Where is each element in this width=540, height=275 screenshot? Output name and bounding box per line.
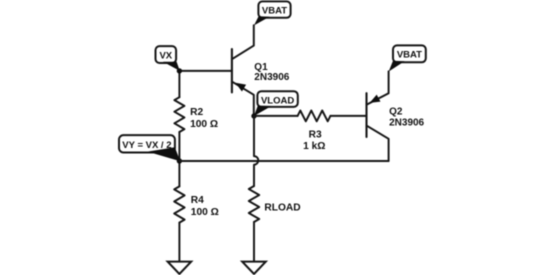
transistor Q2 collector lead (down to rail) — [367, 126, 389, 161]
wire: VLOAD node down, hop over rail, to RLOAD — [254, 116, 258, 186]
wire: VX node to Q1 base — [179, 70, 232, 72]
label R2 — [190, 107, 203, 118]
resistor R4 — [174, 186, 184, 222]
wire: RLOAD to ground — [253, 222, 255, 262]
ground (right) — [242, 262, 266, 274]
net label VY = VX / 2 — [119, 135, 180, 161]
label Q1 — [254, 62, 268, 73]
transistor Q1 base bar — [231, 49, 233, 92]
wire: R3 to Q2 base — [330, 115, 366, 117]
label RLOAD — [264, 202, 300, 213]
svg-text:R3: R3 — [309, 130, 322, 141]
label Q2 — [389, 107, 403, 118]
svg-text:Q1: Q1 — [254, 62, 268, 73]
svg-text:100 Ω: 100 Ω — [191, 207, 219, 218]
value 100 ohm (R4) — [191, 207, 219, 218]
svg-text:VBAT: VBAT — [262, 5, 287, 16]
net label VBAT (right) — [389, 45, 426, 71]
node VY (junction dot) — [177, 158, 182, 163]
net label VLOAD — [254, 91, 298, 116]
svg-text:VX: VX — [159, 50, 172, 61]
svg-text:VY = VX / 2: VY = VX / 2 — [122, 140, 171, 151]
value 2N3906 (Q2) — [389, 117, 424, 128]
transistor Q2 emitter arrow (PNP, points to base) — [370, 95, 381, 103]
svg-text:VLOAD: VLOAD — [261, 95, 294, 106]
label R4 — [191, 195, 204, 206]
svg-text:2N3906: 2N3906 — [254, 72, 289, 83]
resistor R2 — [174, 97, 184, 132]
ground (left) — [168, 262, 192, 274]
value 100 ohm (R2) — [190, 119, 218, 130]
svg-text:1 kΩ: 1 kΩ — [303, 141, 325, 152]
value 2N3906 (Q1) — [254, 72, 289, 83]
svg-text:100 Ω: 100 Ω — [190, 119, 218, 130]
svg-text:RLOAD: RLOAD — [264, 202, 300, 213]
svg-text:VBAT: VBAT — [397, 50, 422, 61]
svg-text:Q2: Q2 — [389, 107, 403, 118]
value 1 kohm (R3) — [303, 141, 325, 152]
wire: rail from VY node to Q2 collector — [179, 160, 388, 162]
transistor Q2 base bar — [365, 93, 367, 137]
net label VX — [156, 46, 180, 71]
wire: R2 to VY node to R4 — [178, 132, 180, 186]
node VLOAD (junction dot) — [251, 113, 256, 118]
wire: VX node down to R2 — [178, 71, 180, 97]
node VX (junction dot) — [177, 68, 182, 73]
svg-text:R4: R4 — [191, 195, 204, 206]
label R3 — [309, 130, 322, 141]
net label VBAT (top) — [254, 1, 291, 25]
transistor Q1 emitter lead (to VLOAD) — [232, 82, 254, 116]
svg-text:R2: R2 — [190, 107, 203, 118]
transistor Q2 emitter lead (to VBAT) — [367, 71, 389, 104]
resistor RLOAD — [249, 186, 259, 222]
resistor R3 — [298, 111, 331, 122]
transistor Q1 collector lead (to VBAT) — [232, 25, 254, 59]
wire: R4 to ground — [178, 223, 180, 262]
wire: VLOAD node to R3 — [254, 115, 298, 117]
transistor Q1 emitter arrow (PNP, points to base) — [235, 83, 246, 92]
svg-text:2N3906: 2N3906 — [389, 117, 424, 128]
